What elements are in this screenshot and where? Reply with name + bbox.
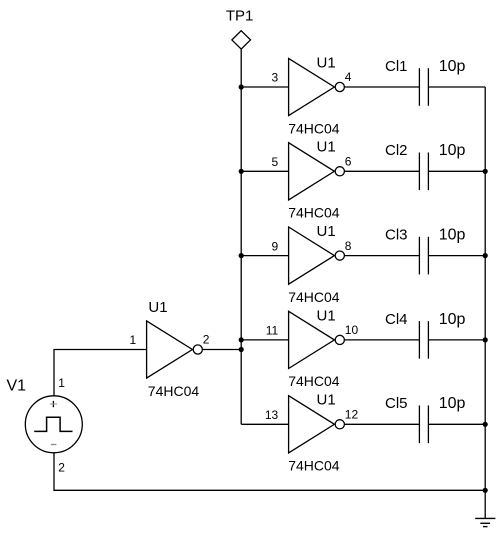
wire: inverter output to capacitor Cl5 bbox=[344, 423, 419, 425]
wire: input of inverter row 3 bbox=[241, 255, 288, 257]
svg-text:10p: 10p bbox=[439, 395, 466, 412]
svg-text:9: 9 bbox=[272, 239, 279, 253]
node junction on left rail (row 1) bbox=[239, 84, 244, 89]
op-amp/inverter U1 gate row 1 (74HC04) bbox=[289, 58, 345, 115]
svg-text:4: 4 bbox=[345, 70, 352, 84]
svg-text:TP1: TP1 bbox=[226, 8, 254, 25]
wire: inverter output to capacitor Cl4 bbox=[344, 339, 419, 341]
op-amp/inverter U1 gate row 2 (74HC04) bbox=[289, 143, 345, 200]
svg-text:V1: V1 bbox=[7, 377, 27, 394]
svg-text:13: 13 bbox=[265, 408, 279, 422]
wire: inverter output to capacitor Cl3 bbox=[344, 255, 419, 257]
svg-text:1: 1 bbox=[58, 376, 65, 390]
wire: V1 bottom to ground rail corner bbox=[54, 453, 485, 491]
svg-text:10p: 10p bbox=[439, 142, 466, 159]
ground symbol bbox=[475, 518, 495, 526]
capacitor Cl3 bbox=[419, 237, 428, 275]
svg-text:U1: U1 bbox=[148, 299, 167, 316]
svg-text:74HC04: 74HC04 bbox=[288, 120, 340, 136]
node junction on right rail (4) bbox=[483, 337, 488, 342]
svg-text:U1: U1 bbox=[317, 307, 336, 324]
svg-text:3: 3 bbox=[272, 71, 279, 85]
node junction on left rail (row 4) bbox=[239, 337, 244, 342]
svg-text:6: 6 bbox=[345, 155, 352, 169]
wire: capacitor Cl1 to right rail bbox=[428, 86, 485, 88]
svg-text:10: 10 bbox=[345, 323, 359, 337]
svg-text:74HC04: 74HC04 bbox=[148, 383, 200, 399]
svg-text:74HC04: 74HC04 bbox=[288, 289, 340, 305]
node junction on left rail (row 3) bbox=[239, 253, 244, 258]
wire: input of inverter row 1 bbox=[241, 86, 288, 88]
wire: driver output to left rail bbox=[202, 349, 241, 351]
svg-text:Cl4: Cl4 bbox=[385, 311, 408, 328]
svg-text:U1: U1 bbox=[317, 223, 336, 240]
capacitor Cl2 bbox=[419, 153, 428, 191]
svg-text:74HC04: 74HC04 bbox=[288, 205, 340, 221]
svg-text:10p: 10p bbox=[439, 58, 466, 75]
wire: right vertical rail bbox=[484, 87, 486, 518]
svg-text:1: 1 bbox=[130, 333, 137, 347]
capacitor Cl5 bbox=[419, 406, 428, 444]
wire: capacitor Cl5 to right rail bbox=[428, 423, 485, 425]
svg-text:Cl3: Cl3 bbox=[385, 227, 408, 244]
capacitor Cl4 bbox=[419, 321, 428, 359]
test point TP1 diamond bbox=[232, 31, 251, 49]
node junction on right rail (3) bbox=[483, 253, 488, 258]
wire: capacitor Cl4 to right rail bbox=[428, 339, 485, 341]
node junction on left rail (row 2) bbox=[239, 169, 244, 174]
svg-text:12: 12 bbox=[345, 408, 359, 422]
wire: input of inverter row 2 bbox=[241, 170, 288, 172]
svg-text:5: 5 bbox=[272, 155, 279, 169]
op-amp/inverter U1 gate row 3 (74HC04) bbox=[289, 227, 345, 284]
wire: capacitor Cl2 to right rail bbox=[428, 170, 485, 172]
svg-text:U1: U1 bbox=[317, 392, 336, 409]
svg-text:2: 2 bbox=[203, 333, 210, 347]
wire: capacitor Cl3 to right rail bbox=[428, 255, 485, 257]
wire: inverter output to capacitor Cl1 bbox=[344, 86, 419, 88]
voltage source V1 (pulse) bbox=[25, 396, 82, 453]
inverter U1 driver gate (74HC04) bbox=[147, 321, 203, 378]
node junction on right rail (bottom) bbox=[483, 488, 488, 493]
svg-text:8: 8 bbox=[345, 239, 352, 253]
svg-text:U1: U1 bbox=[317, 139, 336, 156]
op-amp/inverter U1 gate row 4 (74HC04) bbox=[289, 311, 345, 368]
svg-text:Cl1: Cl1 bbox=[385, 58, 408, 75]
wire: input of inverter row 5 bbox=[241, 423, 288, 425]
svg-text:Cl2: Cl2 bbox=[385, 142, 408, 159]
wire: V1 to driver inverter input bbox=[54, 350, 147, 396]
wire: left vertical rail from TP1 to row 5 bbox=[240, 49, 242, 424]
node junction on right rail (2) bbox=[483, 169, 488, 174]
op-amp/inverter U1 gate row 5 (74HC04) bbox=[289, 396, 345, 453]
node junction on left rail (row driver) bbox=[239, 347, 244, 352]
svg-text:U1: U1 bbox=[317, 54, 336, 71]
svg-text:10p: 10p bbox=[439, 311, 466, 328]
node junction on right rail (5) bbox=[483, 422, 488, 427]
svg-text:74HC04: 74HC04 bbox=[288, 458, 340, 474]
svg-text:11: 11 bbox=[266, 324, 279, 338]
svg-text:10p: 10p bbox=[439, 227, 466, 244]
wire: input of inverter row 4 bbox=[241, 339, 288, 341]
svg-text:Cl5: Cl5 bbox=[385, 395, 408, 412]
svg-text:2: 2 bbox=[58, 460, 65, 474]
svg-text:74HC04: 74HC04 bbox=[288, 373, 340, 389]
capacitor Cl1 bbox=[419, 68, 428, 106]
wire: inverter output to capacitor Cl2 bbox=[344, 170, 419, 172]
